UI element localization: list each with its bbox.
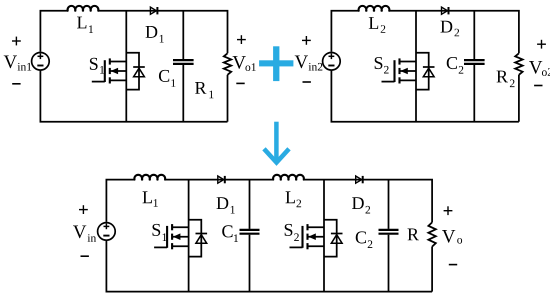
- diode D1 (combined): [218, 176, 225, 183]
- diode D2 (combined): [356, 176, 363, 183]
- voltage source Vin1: [32, 53, 50, 71]
- label D1 (top-left): [146, 26, 164, 42]
- transistor S1 (MOSFET, top-left): [92, 58, 127, 83]
- label Vin1: [4, 56, 32, 71]
- body diode of S1 (combined): [189, 220, 208, 257]
- voltage source Vin (combined): [98, 223, 116, 241]
- wire S2 branch (top-right): [415, 11, 417, 122]
- wire right (combined converter): [431, 247, 433, 292]
- label − (Vin): [81, 255, 89, 257]
- voltage source Vin2: [323, 53, 341, 71]
- wire S1 branch (top-left): [125, 11, 127, 122]
- body diode of S2 (combined): [324, 220, 343, 257]
- transistor S2 (MOSFET, combined): [290, 224, 325, 249]
- diode D2 (top-right): [442, 7, 449, 14]
- capacitor C2 (combined): [379, 180, 399, 292]
- arrow (combination result, cyan): [264, 122, 289, 163]
- label − (Vo): [449, 264, 457, 266]
- label D1 (combined): [217, 197, 235, 213]
- resistor R (combined): [428, 222, 435, 246]
- wire top (top-left converter): [99, 11, 228, 54]
- wire right (top-right converter): [518, 75, 520, 122]
- label + (Vin): [79, 205, 88, 214]
- body diode of S1 (top-left): [126, 53, 145, 90]
- transistor S1 (MOSFET, combined): [154, 224, 189, 249]
- inductor L1 (combined): [134, 175, 165, 180]
- label Vo1: [233, 56, 256, 71]
- plus sign (parallel combination, cyan): [259, 46, 293, 81]
- label − (Vo1): [236, 82, 244, 84]
- label Vin (combined): [73, 226, 96, 242]
- label + (Vo): [444, 206, 453, 215]
- label − (Vin2): [303, 81, 311, 83]
- label C2 (combined): [356, 231, 373, 248]
- label R1: [195, 82, 213, 98]
- label C1 (top-left): [159, 70, 176, 87]
- label − (Vin1): [12, 83, 20, 85]
- label S1 (combined): [153, 224, 167, 241]
- label D2 (top-right): [441, 21, 460, 37]
- label Vo2: [529, 61, 550, 76]
- capacitor C1 (top-left): [173, 11, 194, 122]
- transistor S2 (MOSFET, top-right): [382, 58, 417, 83]
- wire top (top-right converter): [390, 11, 519, 54]
- label R2: [497, 71, 515, 87]
- wire bottom (top-left converter): [40, 71, 227, 122]
- wire top (combined converter): [165, 180, 432, 223]
- label L2 (combined): [286, 191, 302, 207]
- wire bottom (combined converter): [106, 241, 432, 292]
- inductor L1 (top-left): [68, 6, 99, 11]
- diode D1 (top-left): [150, 7, 157, 14]
- label + (Vo2): [537, 40, 546, 49]
- body diode of S2 (top-right): [416, 53, 435, 90]
- wire S2 branch (combined): [323, 180, 325, 292]
- label C2 (top-right): [447, 57, 464, 74]
- label C1 (combined): [222, 225, 238, 242]
- wire left (top-left converter): [40, 11, 67, 52]
- label D2 (combined): [352, 197, 370, 213]
- wire bottom (top-right converter): [331, 71, 519, 122]
- label L2 (top-right): [369, 17, 386, 33]
- inductor L2 (top-right): [359, 6, 390, 11]
- label Vin2: [295, 56, 323, 71]
- inductor L2 (combined): [273, 175, 304, 180]
- label L1 (combined): [143, 191, 158, 206]
- label R (combined): [408, 229, 419, 241]
- resistor R2: [515, 53, 522, 75]
- wire left (combined converter): [106, 180, 134, 222]
- label + (Vin2): [302, 36, 311, 45]
- label + (Vin1): [12, 37, 21, 46]
- wire right (top-left converter): [227, 75, 229, 122]
- resistor R1: [224, 53, 231, 75]
- wire S1 branch (combined): [188, 180, 190, 292]
- label − (Vo2): [534, 85, 542, 87]
- label + (Vo1): [237, 35, 246, 44]
- label S2 (top-right): [375, 57, 389, 74]
- label S1 (top-left): [90, 58, 104, 74]
- label S2 (combined): [285, 224, 299, 241]
- capacitor C1 (combined): [240, 180, 260, 292]
- label Vo (combined): [442, 230, 462, 244]
- wire left (top-right converter): [331, 11, 358, 52]
- label L1 (top-left): [77, 17, 93, 33]
- capacitor C2 (top-right): [464, 11, 485, 122]
